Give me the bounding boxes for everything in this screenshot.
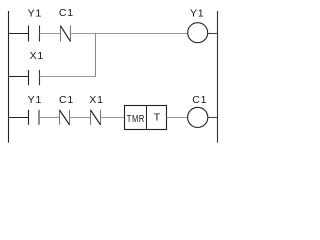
svg-text:Y1: Y1 (28, 7, 42, 19)
svg-text:Y1: Y1 (190, 7, 204, 19)
svg-text:C1: C1 (192, 94, 207, 106)
svg-text:C1: C1 (59, 7, 74, 19)
svg-text:X1: X1 (30, 50, 44, 62)
svg-text:TMR: TMR (127, 113, 145, 124)
svg-text:C1: C1 (59, 94, 74, 106)
svg-text:T: T (154, 112, 161, 124)
svg-text:Y1: Y1 (28, 94, 42, 106)
svg-text:X1: X1 (89, 94, 103, 106)
